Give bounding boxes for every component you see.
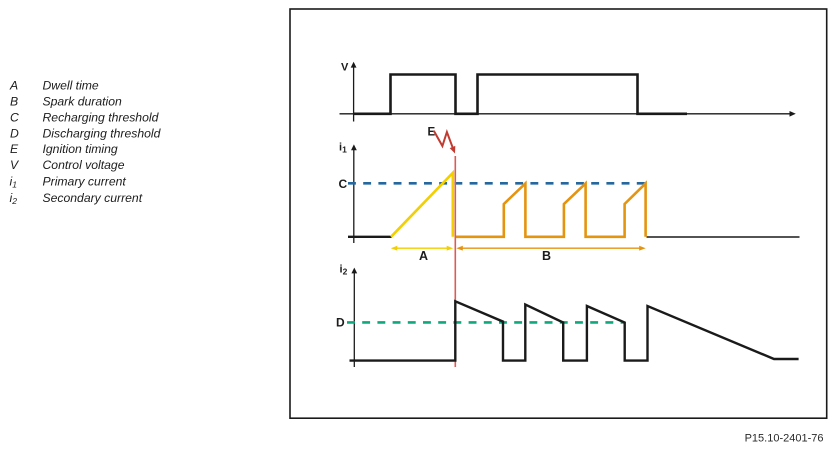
E ignition zigzag arrow (red) [434, 131, 453, 148]
svg-text:Spark duration: Spark duration [43, 94, 122, 108]
svg-text:C: C [339, 177, 348, 191]
svg-text:V: V [341, 62, 349, 74]
svg-text:B: B [542, 249, 551, 263]
svg-text:A: A [9, 78, 18, 92]
yellow primary-current ramp [391, 173, 453, 237]
secondary current waveform [350, 301, 799, 360]
svg-text:Recharging threshold: Recharging threshold [43, 111, 160, 125]
y-axis [353, 66, 355, 122]
svg-text:C: C [10, 111, 19, 125]
baseline before ramp [348, 236, 392, 238]
B duration arrow (orange) [456, 246, 645, 251]
y-axis [353, 273, 355, 368]
svg-text:B: B [10, 94, 18, 108]
svg-text:E: E [10, 142, 19, 156]
legend [9, 78, 162, 206]
svg-text:A: A [419, 249, 428, 263]
D threshold dashed line (green) [347, 321, 625, 324]
A duration arrow (yellow) [391, 246, 453, 251]
V waveform [354, 75, 687, 114]
svg-text:D: D [10, 127, 19, 141]
red ignition timing vertical line [454, 156, 456, 367]
svg-text:Control voltage: Control voltage [43, 158, 125, 172]
x-axis [340, 113, 791, 115]
C threshold dashed line [348, 182, 646, 185]
y-axis [353, 149, 355, 243]
svg-text:Dwell time: Dwell time [43, 78, 99, 92]
axis line after waveform [647, 236, 800, 238]
svg-text:Secondary current: Secondary current [43, 191, 143, 205]
svg-text:Primary current: Primary current [43, 174, 127, 188]
svg-text:Ignition timing: Ignition timing [43, 142, 118, 156]
svg-text:D: D [336, 316, 345, 330]
svg-text:P15.10-2401-76: P15.10-2401-76 [745, 433, 824, 445]
svg-text:Discharging threshold: Discharging threshold [43, 127, 162, 141]
orange recharging teeth [456, 183, 646, 236]
